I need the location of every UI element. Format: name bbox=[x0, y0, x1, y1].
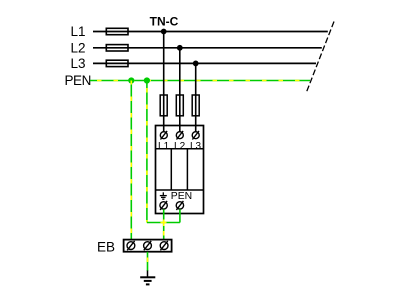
wire L3 bbox=[93, 62, 316, 64]
surge arrester U1 terminal section divider bbox=[156, 148, 204, 150]
wire L1 bbox=[93, 31, 328, 33]
fuse F5 on L2 branch bbox=[176, 95, 183, 116]
line break mark (diagonal) bbox=[307, 22, 335, 93]
svg-text:L2: L2 bbox=[70, 41, 85, 56]
node PEN junction 1 bbox=[128, 77, 134, 83]
svg-text:PEN: PEN bbox=[64, 73, 91, 88]
svg-text:L2: L2 bbox=[174, 141, 186, 152]
terminal PEN-a of U1 bbox=[160, 201, 167, 210]
equipotential bonding bar EB bbox=[124, 240, 172, 252]
terminal L1 of U1 bbox=[160, 131, 167, 140]
wire PEN drop to EB bar bbox=[130, 81, 132, 241]
wire PEN drop 2 bbox=[146, 81, 148, 223]
node junction L3 bbox=[193, 61, 199, 67]
wire U1 PEN-b drop bbox=[179, 209, 181, 222]
earth symbol in U1 PEN section bbox=[160, 192, 167, 199]
node junction L2 bbox=[177, 45, 183, 51]
surge arrester module divider 2 bbox=[186, 149, 188, 190]
ground bbox=[140, 271, 155, 285]
fuse F6 on L3 branch bbox=[192, 95, 199, 116]
wire EB drop yellow dash bbox=[163, 231, 165, 236]
wire PEN link horizontal bbox=[147, 222, 180, 224]
svg-text:L3: L3 bbox=[70, 56, 85, 71]
svg-text:L1: L1 bbox=[70, 24, 85, 39]
fuse F3 on L3 bbox=[106, 60, 128, 66]
fuse F4 on L1 branch bbox=[160, 95, 167, 116]
fuse F2 on L2 bbox=[106, 45, 128, 51]
svg-text:L1: L1 bbox=[158, 141, 170, 152]
wire branch L3 to arrester bbox=[195, 63, 197, 131]
terminal PEN-b of U1 bbox=[176, 201, 183, 210]
surge arrester U1 outline bbox=[156, 126, 204, 214]
svg-text:TN-C: TN-C bbox=[150, 15, 179, 29]
wire branch L2 to arrester bbox=[179, 48, 181, 132]
terminal 2 of EB bbox=[144, 241, 152, 250]
terminal L2 of U1 bbox=[176, 131, 183, 140]
wire PEN trunk (green/yellow) bbox=[90, 80, 310, 82]
node PEN junction 2 bbox=[144, 77, 150, 83]
node junction PEN link (yellow dash) bbox=[161, 222, 167, 224]
wire L2 bbox=[93, 47, 322, 49]
wire branch L1 to arrester bbox=[163, 32, 165, 132]
svg-text:L3: L3 bbox=[190, 141, 202, 152]
wire U1 PEN-a to EB bar bbox=[163, 209, 165, 240]
surge arrester module divider 1 bbox=[170, 149, 172, 190]
terminal 3 of EB bbox=[160, 241, 168, 250]
svg-text:EB: EB bbox=[97, 239, 115, 254]
node junction L1 bbox=[161, 29, 167, 35]
surge arrester U1 PEN section divider bbox=[156, 189, 204, 191]
terminal 1 of EB bbox=[127, 241, 135, 250]
wire EB to earth bbox=[147, 252, 149, 271]
svg-text:PEN: PEN bbox=[171, 191, 192, 202]
terminal L3 of U1 bbox=[192, 131, 199, 140]
fuse F1 on L1 bbox=[106, 28, 128, 34]
